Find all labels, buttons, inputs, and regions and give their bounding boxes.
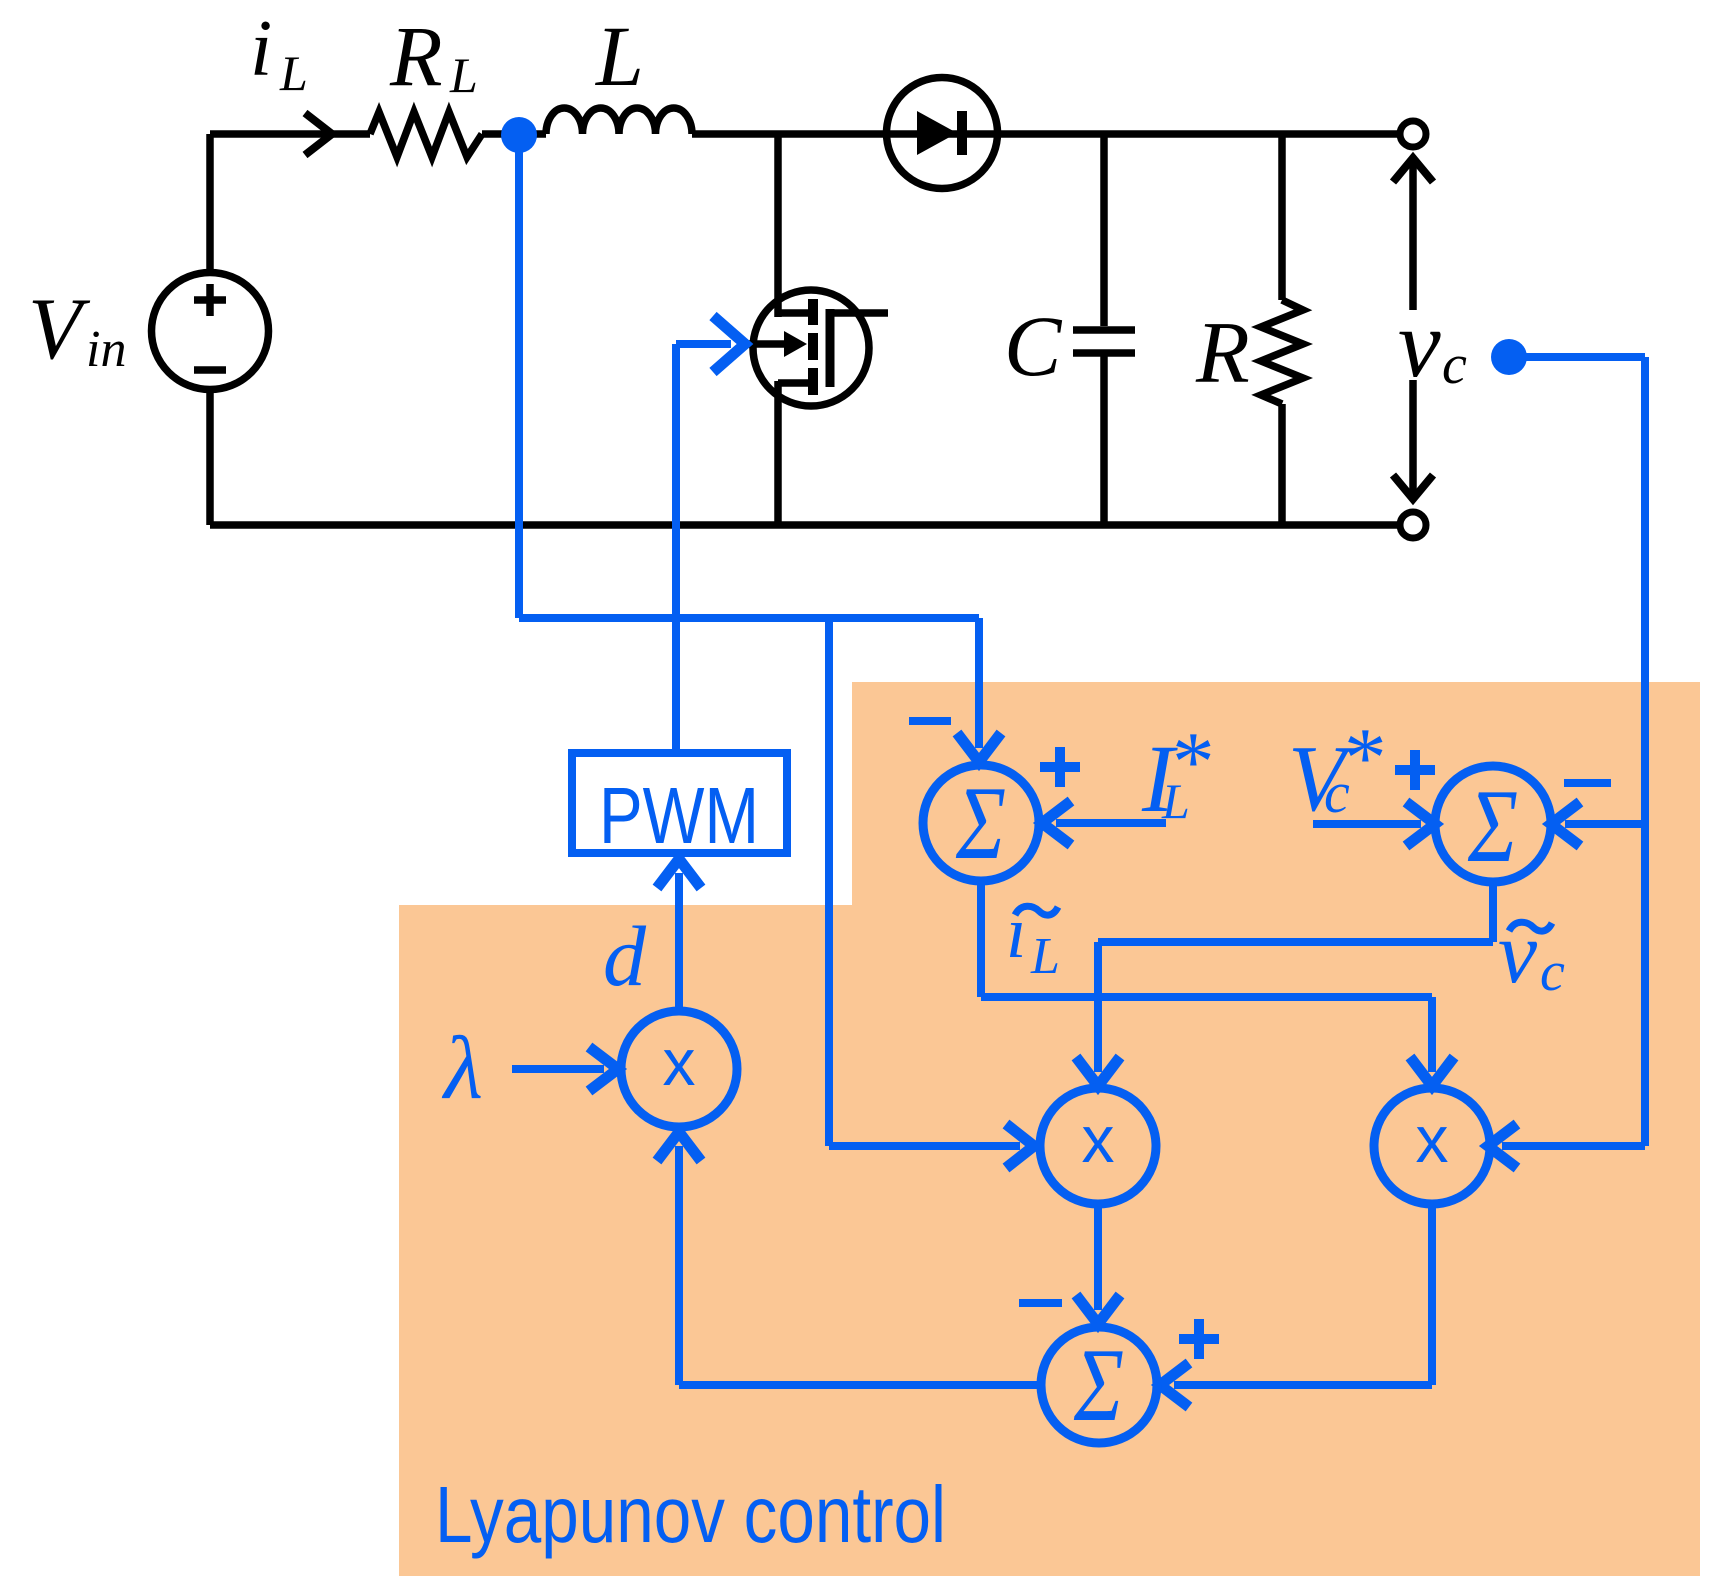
- sum1 minus label: [909, 717, 951, 725]
- svg-text:in: in: [86, 321, 126, 378]
- summing junction sum1: [923, 765, 1039, 881]
- transistor Q1 MOSFET: [748, 290, 888, 406]
- wire X2 output into sum3: [1094, 1202, 1102, 1310]
- sum2 plus label: [1395, 750, 1435, 790]
- svg-text:x: x: [1082, 1102, 1115, 1176]
- svg-text:c: c: [1324, 760, 1350, 825]
- wire vc sense: [1502, 357, 1645, 1146]
- sum2 minus label: [1564, 779, 1611, 787]
- summing junction sum3: [1041, 1327, 1157, 1443]
- wire into sum1 minus input: [975, 618, 983, 748]
- wire vc into sum2 minus: [1565, 820, 1645, 828]
- svg-text:L: L: [1030, 928, 1060, 985]
- wire PWM to gate: [676, 344, 731, 753]
- wire bottom rail: [210, 521, 1398, 529]
- sum3 minus label: [1019, 1299, 1062, 1307]
- wire sum2 output vtilde: [1098, 880, 1493, 1072]
- resistor RL: [370, 112, 482, 157]
- svg-text:v: v: [1398, 290, 1441, 397]
- Vin plus sign: [194, 284, 226, 316]
- svg-text:λ: λ: [441, 1019, 483, 1118]
- svg-text:d: d: [603, 908, 647, 1004]
- svg-text:x: x: [663, 1025, 696, 1099]
- wire d into PWM: [675, 873, 683, 1008]
- wire top rail: [210, 130, 1398, 138]
- source Vin: [152, 273, 269, 390]
- svg-text:c: c: [1540, 941, 1565, 1003]
- inductor L: [546, 108, 692, 134]
- svg-text:c: c: [1442, 334, 1467, 396]
- wire sum3 output to X1: [679, 1146, 1043, 1385]
- svg-text:i: i: [250, 5, 272, 93]
- wire IL* input into sum1: [1056, 819, 1166, 827]
- wire iL sense down: [515, 135, 523, 618]
- wire MOSFET source: [774, 381, 782, 525]
- PWM block: [572, 753, 787, 853]
- wire sum1 output itilde: [981, 879, 1432, 1072]
- summing junction sum2: [1435, 766, 1551, 882]
- sum3 plus label: [1179, 1319, 1219, 1359]
- vc voltage arrow up: [1409, 158, 1417, 310]
- wire Vc* input into sum2: [1313, 820, 1421, 828]
- svg-text:L: L: [449, 47, 478, 103]
- svg-text:Σ: Σ: [1467, 767, 1518, 884]
- wire left vertical: [206, 134, 214, 525]
- wire iL sense horizontal: [519, 614, 979, 622]
- svg-text:R: R: [389, 8, 443, 104]
- node iL sense dot: [501, 117, 537, 153]
- svg-text:L: L: [594, 8, 644, 104]
- svg-text:C: C: [1004, 298, 1063, 394]
- multiplier X3 (right): [1374, 1088, 1490, 1204]
- capacitor C: [1073, 134, 1135, 525]
- svg-text:L: L: [1161, 773, 1190, 829]
- Lyapunov control shaded region: [399, 682, 1700, 1576]
- Vin minus sign: [194, 366, 226, 374]
- multiplier X1 (lambda): [621, 1011, 737, 1127]
- multiplier X2 (middle): [1040, 1088, 1156, 1204]
- wire X3 output into sum3: [1174, 1202, 1432, 1385]
- wire MOSFET drain: [774, 134, 782, 317]
- vc voltage arrow down: [1409, 380, 1417, 499]
- node vc sense dot: [1491, 339, 1527, 375]
- svg-text:Lyapunov control: Lyapunov control: [435, 1470, 946, 1559]
- output terminal bottom: [1400, 512, 1426, 538]
- wire lambda input: [512, 1065, 604, 1073]
- svg-text:PWM: PWM: [599, 771, 759, 860]
- svg-text:L: L: [279, 45, 308, 101]
- diode D1: [887, 78, 998, 189]
- output terminal top: [1400, 121, 1426, 147]
- svg-text:x: x: [1416, 1102, 1449, 1176]
- svg-text:R: R: [1195, 305, 1250, 402]
- wire iL to multiplier branch: [829, 618, 1020, 1146]
- svg-text:Σ: Σ: [1073, 1326, 1124, 1443]
- svg-text:Σ: Σ: [955, 764, 1006, 881]
- sum1 plus label: [1040, 747, 1080, 787]
- iL current arrow: [305, 113, 332, 155]
- svg-text:V: V: [28, 281, 91, 378]
- resistor R: [1261, 134, 1303, 525]
